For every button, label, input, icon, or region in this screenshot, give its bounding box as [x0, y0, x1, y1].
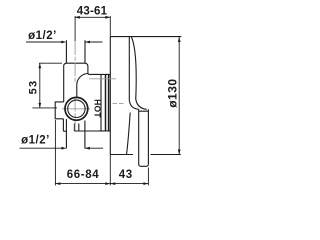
- svg-text:ø130: ø130: [166, 78, 180, 107]
- svg-text:66-84: 66-84: [67, 169, 99, 181]
- svg-text:ø1/2’: ø1/2’: [28, 30, 57, 42]
- svg-text:HOT: HOT: [92, 99, 102, 118]
- svg-text:ø1/2’: ø1/2’: [21, 135, 50, 147]
- svg-text:43: 43: [119, 169, 133, 181]
- svg-text:53: 53: [28, 80, 40, 95]
- svg-text:43-61: 43-61: [77, 5, 108, 17]
